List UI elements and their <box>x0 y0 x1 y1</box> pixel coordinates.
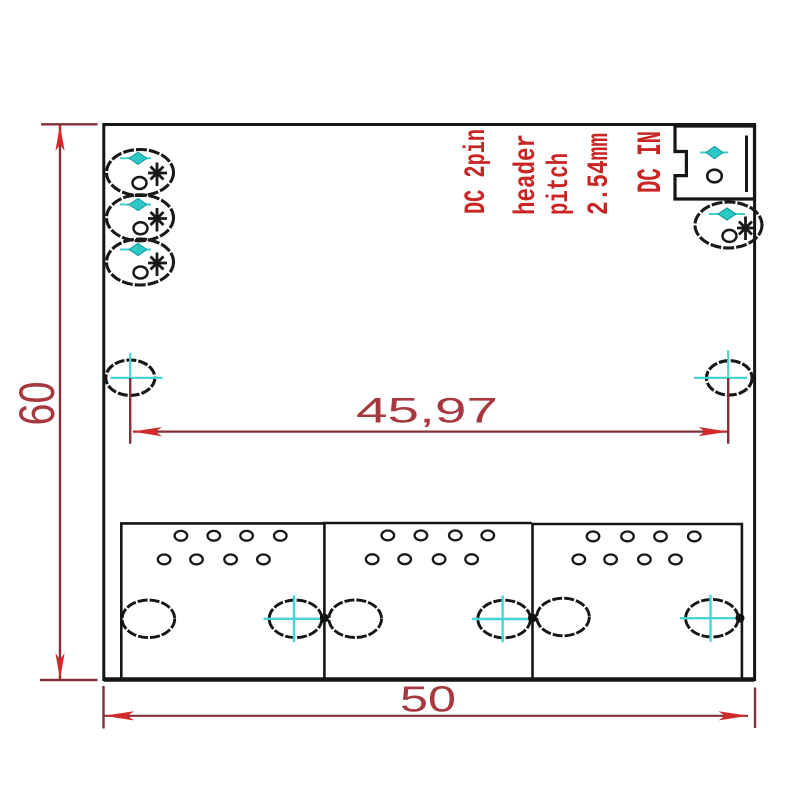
mounting hole H2 (right) <box>694 350 752 395</box>
svg-text:45,97: 45,97 <box>356 392 498 431</box>
capacitor C1 <box>107 150 174 196</box>
board outline <box>104 125 755 680</box>
capacitor C4 (at DC IN) <box>695 202 762 248</box>
port connector P1 <box>121 523 329 679</box>
svg-text:60: 60 <box>9 382 65 426</box>
mounting hole H1 (left) <box>106 353 163 396</box>
svg-text:2.54mm: 2.54mm <box>583 133 617 215</box>
dimension 45,97 <box>130 378 728 444</box>
svg-text:DC IN: DC IN <box>633 131 671 193</box>
svg-text:50: 50 <box>400 679 456 720</box>
capacitor C2 <box>107 195 174 241</box>
dimension 50 <box>104 679 756 729</box>
port connector P3 <box>533 524 745 679</box>
DC IN connector J1 <box>675 126 755 199</box>
capacitor C3 <box>107 239 174 285</box>
svg-text:pitch: pitch <box>543 153 577 215</box>
svg-text:DC 2pin: DC 2pin <box>460 129 494 214</box>
port connector P2 <box>324 523 537 679</box>
dimension 60 <box>9 124 98 680</box>
board bottom edge (thick) <box>104 677 755 682</box>
svg-text:header: header <box>510 134 544 215</box>
